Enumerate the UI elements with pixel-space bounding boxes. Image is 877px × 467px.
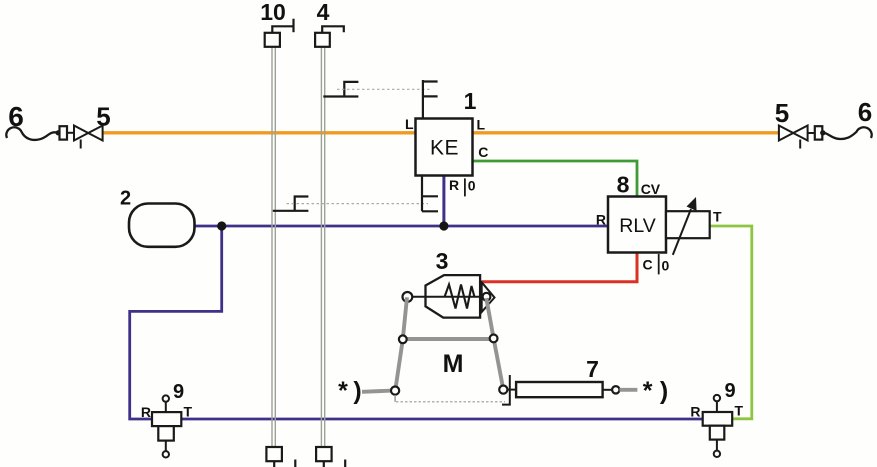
coupling head 4 bottom [316,447,332,461]
wire light green RLV T to valve 9 right [709,226,752,419]
release valve 9 left [152,412,181,426]
svg-text:3: 3 [436,248,449,274]
anchor line left of damper 7 [502,375,510,405]
dashed base line under M [394,395,396,402]
svg-text:L: L [477,117,486,133]
svg-text:0: 0 [468,178,476,194]
svg-text:5: 5 [96,102,110,132]
junction B below KE [439,221,448,230]
pipe 4 (double line) [321,47,324,447]
svg-text:T: T [713,208,722,224]
svg-text:R: R [596,212,606,228]
wire orange right (brake pipe L) [471,131,780,134]
svg-text:CV: CV [641,181,661,197]
svg-text:M: M [443,350,464,378]
wire purple branch from junction A down-left to valve 9 left [130,226,222,419]
svg-text:KE: KE [430,137,459,160]
svg-text:): ) [353,377,361,405]
wire red RLV C to load sensor 3 [482,252,637,282]
pivot circle left of 3 [403,292,413,302]
svg-text:9: 9 [173,381,184,403]
pipe 10 (double line) [272,47,275,447]
svg-text:2: 2 [120,188,131,210]
svg-text:6: 6 [8,101,24,132]
KE port 0 with tick [464,178,466,196]
junction A [217,221,226,230]
wire purple main R line [192,225,609,228]
coupling head 10 top (square + bracket) [265,33,280,47]
pivot circle right of 3 [483,293,491,301]
wire purple KE R drop [442,175,445,227]
svg-text:R: R [690,403,700,419]
dashed link to KE top [337,88,430,90]
hose 6 right [825,127,872,139]
svg-text:RLV: RLV [619,215,656,237]
svg-text:L: L [405,116,414,132]
KE bottom actuation symbol [422,175,438,211]
svg-text:0: 0 [662,258,670,274]
RLV port 0 with tick [658,254,660,274]
svg-text:10: 10 [260,0,286,25]
svg-text:R: R [449,177,459,193]
wire purple bottom line between both valves 9 [180,418,704,421]
hose 6 left [6,127,57,140]
wire green dark KE C to RLV CV [471,161,637,198]
coupling head 10 bottom [266,447,282,461]
svg-text:*: * [338,377,348,405]
cock 5 right [779,126,793,141]
cock 5 left [60,126,68,139]
svg-text:): ) [660,377,668,405]
coupling head 4 top (square + bracket) [315,33,330,47]
KE top actuation symbol [423,80,438,119]
svg-text:9: 9 [724,380,735,402]
svg-text:C: C [643,257,653,273]
dashed link to KE bottom [287,203,429,205]
svg-text:6: 6 [858,97,872,127]
actuation symbol on pipe 4 (upper) [323,82,358,97]
RLV throttle box with arrow [666,211,710,238]
load sensing valve 3 [426,275,481,318]
svg-text:4: 4 [317,0,330,25]
wire orange left (brake pipe L) [102,131,417,134]
KE valve U1 [416,119,473,176]
gray rod right of damper [620,388,638,392]
svg-text:5: 5 [775,98,789,128]
linkage pivots [399,335,407,343]
svg-text:8: 8 [617,172,630,198]
actuation symbol on pipe 10 (lower) [273,197,309,211]
damper 7 [507,389,516,391]
svg-text:T: T [184,404,193,420]
svg-text:T: T [735,402,744,418]
svg-text:7: 7 [586,356,599,382]
reservoir 2 [129,204,195,247]
svg-text:C: C [478,144,488,160]
release valve 9 right [703,412,733,426]
RLV valve [608,197,666,253]
svg-text:1: 1 [464,88,477,114]
svg-text:*: * [643,377,653,405]
svg-text:R: R [141,404,151,420]
linkage M gray bars [362,297,503,392]
